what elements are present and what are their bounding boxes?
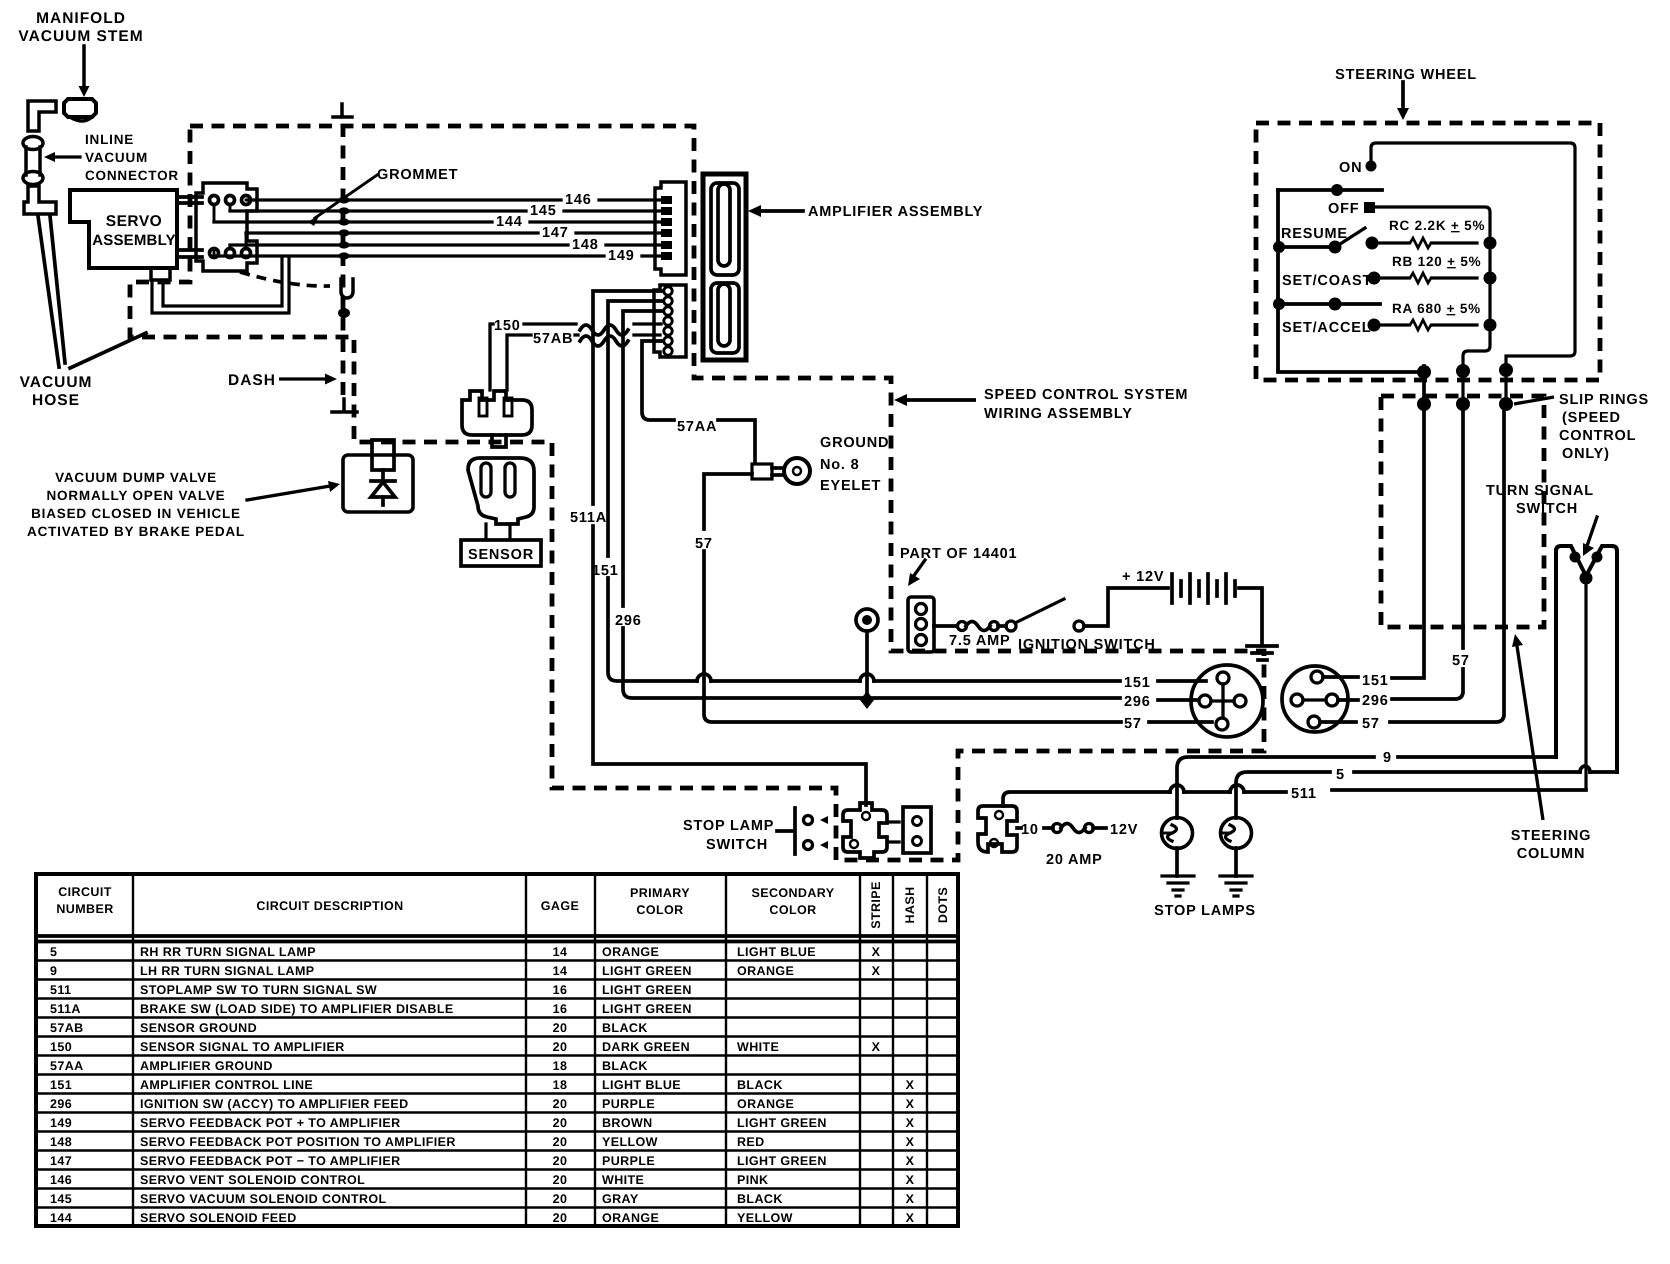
svg-text:SENSOR: SENSOR bbox=[468, 547, 534, 563]
svg-text:DOTS: DOTS bbox=[936, 887, 950, 923]
svg-text:ORANGE: ORANGE bbox=[602, 1211, 659, 1225]
svg-text:BLACK: BLACK bbox=[737, 1192, 783, 1206]
svg-text:STEERING WHEEL: STEERING WHEEL bbox=[1335, 67, 1477, 83]
svg-text:57: 57 bbox=[1124, 716, 1142, 732]
svg-text:20: 20 bbox=[553, 1097, 568, 1111]
svg-text:CONNECTOR: CONNECTOR bbox=[85, 168, 179, 183]
svg-text:LIGHT BLUE: LIGHT BLUE bbox=[602, 1078, 681, 1092]
svg-text:EYELET: EYELET bbox=[820, 478, 881, 494]
svg-text:149: 149 bbox=[50, 1116, 72, 1130]
svg-text:SET/ACCEL: SET/ACCEL bbox=[1282, 320, 1371, 336]
svg-text:RC 2.2K + 5%: RC 2.2K + 5% bbox=[1389, 218, 1485, 233]
svg-text:148: 148 bbox=[50, 1135, 72, 1149]
svg-text:144: 144 bbox=[50, 1211, 72, 1225]
svg-text:AMPLIFIER CONTROL LINE: AMPLIFIER CONTROL LINE bbox=[140, 1078, 313, 1092]
svg-text:WIRING ASSEMBLY: WIRING ASSEMBLY bbox=[984, 406, 1133, 422]
svg-text:LIGHT GREEN: LIGHT GREEN bbox=[602, 964, 692, 978]
svg-text:20: 20 bbox=[553, 1192, 568, 1206]
svg-text:PURPLE: PURPLE bbox=[602, 1154, 655, 1168]
svg-text:RED: RED bbox=[737, 1135, 765, 1149]
svg-text:18: 18 bbox=[553, 1059, 568, 1073]
svg-text:X: X bbox=[906, 1116, 915, 1130]
svg-text:SERVO VENT SOLENOID CONTROL: SERVO VENT SOLENOID CONTROL bbox=[140, 1173, 365, 1187]
svg-text:SERVO FEEDBACK POT POSITION TO: SERVO FEEDBACK POT POSITION TO AMPLIFIER bbox=[140, 1135, 456, 1149]
svg-text:GAGE: GAGE bbox=[541, 899, 579, 913]
svg-text:145: 145 bbox=[50, 1192, 72, 1206]
svg-text:RB 120 + 5%: RB 120 + 5% bbox=[1392, 254, 1481, 269]
svg-text:IGNITION SW (ACCY) TO AMPLIFIE: IGNITION SW (ACCY) TO AMPLIFIER FEED bbox=[140, 1097, 409, 1111]
svg-text:LIGHT GREEN: LIGHT GREEN bbox=[602, 1002, 692, 1016]
svg-text:SLIP RINGS: SLIP RINGS bbox=[1559, 392, 1649, 408]
svg-text:SERVO VACUUM SOLENOID CONTROL: SERVO VACUUM SOLENOID CONTROL bbox=[140, 1192, 387, 1206]
svg-text:YELLOW: YELLOW bbox=[737, 1211, 793, 1225]
svg-text:145: 145 bbox=[530, 203, 557, 219]
svg-text:X: X bbox=[872, 1040, 881, 1054]
svg-text:SERVO FEEDBACK POT + TO AMPLIF: SERVO FEEDBACK POT + TO AMPLIFIER bbox=[140, 1116, 401, 1130]
svg-text:SWITCH: SWITCH bbox=[706, 837, 768, 853]
svg-text:INLINE: INLINE bbox=[85, 132, 134, 147]
svg-text:RH RR TURN SIGNAL LAMP: RH RR TURN SIGNAL LAMP bbox=[140, 945, 316, 959]
svg-text:511A: 511A bbox=[50, 1002, 81, 1016]
svg-text:20: 20 bbox=[553, 1211, 568, 1225]
svg-text:SERVO: SERVO bbox=[106, 213, 163, 230]
svg-text:CIRCUIT: CIRCUIT bbox=[58, 885, 112, 899]
svg-text:VACUUM: VACUUM bbox=[85, 150, 148, 165]
svg-text:20: 20 bbox=[553, 1173, 568, 1187]
svg-text:OFF: OFF bbox=[1328, 201, 1359, 217]
svg-text:16: 16 bbox=[553, 1002, 568, 1016]
svg-text:BROWN: BROWN bbox=[602, 1116, 653, 1130]
svg-text:SPEED CONTROL SYSTEM: SPEED CONTROL SYSTEM bbox=[984, 387, 1188, 403]
svg-text:NUMBER: NUMBER bbox=[56, 902, 113, 916]
svg-text:STOP LAMP: STOP LAMP bbox=[683, 818, 774, 834]
svg-text:VACUUM: VACUUM bbox=[20, 374, 93, 391]
svg-text:RESUME: RESUME bbox=[1281, 226, 1348, 242]
svg-text:20 AMP: 20 AMP bbox=[1046, 852, 1103, 868]
svg-text:20: 20 bbox=[553, 1135, 568, 1149]
svg-text:146: 146 bbox=[50, 1173, 72, 1187]
svg-text:X: X bbox=[872, 964, 881, 978]
svg-text:5: 5 bbox=[50, 945, 57, 959]
svg-text:WHITE: WHITE bbox=[602, 1173, 644, 1187]
svg-text:MANIFOLD: MANIFOLD bbox=[36, 10, 126, 27]
svg-text:STOP LAMPS: STOP LAMPS bbox=[1154, 903, 1256, 919]
svg-text:AMPLIFIER ASSEMBLY: AMPLIFIER ASSEMBLY bbox=[808, 204, 983, 220]
svg-text:ORANGE: ORANGE bbox=[737, 964, 794, 978]
svg-text:ACTIVATED BY BRAKE PEDAL: ACTIVATED BY BRAKE PEDAL bbox=[27, 524, 245, 539]
svg-text:GROMMET: GROMMET bbox=[377, 167, 458, 183]
svg-text:10: 10 bbox=[1021, 822, 1039, 838]
svg-text:SERVO SOLENOID FEED: SERVO SOLENOID FEED bbox=[140, 1211, 297, 1225]
svg-text:150: 150 bbox=[50, 1040, 72, 1054]
svg-text:57: 57 bbox=[1452, 653, 1470, 669]
svg-text:151: 151 bbox=[592, 563, 619, 579]
svg-text:9: 9 bbox=[50, 964, 57, 978]
svg-text:TURN SIGNAL: TURN SIGNAL bbox=[1486, 483, 1594, 499]
svg-text:147: 147 bbox=[50, 1154, 72, 1168]
svg-text:CIRCUIT DESCRIPTION: CIRCUIT DESCRIPTION bbox=[256, 899, 403, 913]
svg-text:20: 20 bbox=[553, 1040, 568, 1054]
svg-text:151: 151 bbox=[50, 1078, 72, 1092]
svg-text:STRIPE: STRIPE bbox=[869, 881, 883, 929]
svg-text:X: X bbox=[906, 1097, 915, 1111]
svg-text:ORANGE: ORANGE bbox=[737, 1097, 794, 1111]
svg-text:57AA: 57AA bbox=[50, 1059, 84, 1073]
svg-text:IGNITION SWITCH: IGNITION SWITCH bbox=[1018, 637, 1156, 653]
svg-text:NORMALLY OPEN VALVE: NORMALLY OPEN VALVE bbox=[47, 488, 226, 503]
svg-text:ORANGE: ORANGE bbox=[602, 945, 659, 959]
svg-text:X: X bbox=[906, 1135, 915, 1149]
svg-text:COLOR: COLOR bbox=[636, 903, 683, 917]
svg-text:WHITE: WHITE bbox=[737, 1040, 779, 1054]
svg-text:No. 8: No. 8 bbox=[820, 457, 859, 473]
svg-text:LIGHT GREEN: LIGHT GREEN bbox=[737, 1116, 827, 1130]
svg-text:511: 511 bbox=[50, 983, 71, 997]
svg-text:ON: ON bbox=[1339, 160, 1362, 176]
svg-text:57: 57 bbox=[1362, 716, 1380, 732]
svg-text:STEERING: STEERING bbox=[1511, 828, 1592, 844]
svg-text:LIGHT GREEN: LIGHT GREEN bbox=[737, 1154, 827, 1168]
svg-text:VACUUM DUMP VALVE: VACUUM DUMP VALVE bbox=[55, 470, 217, 485]
svg-text:BLACK: BLACK bbox=[737, 1078, 783, 1092]
svg-text:149: 149 bbox=[608, 248, 635, 264]
svg-text:ASSEMBLY: ASSEMBLY bbox=[92, 232, 176, 249]
svg-text:SENSOR GROUND: SENSOR GROUND bbox=[140, 1021, 257, 1035]
svg-text:YELLOW: YELLOW bbox=[602, 1135, 658, 1149]
svg-text:GRAY: GRAY bbox=[602, 1192, 639, 1206]
svg-text:X: X bbox=[906, 1078, 915, 1092]
svg-text:LH RR TURN SIGNAL LAMP: LH RR TURN SIGNAL LAMP bbox=[140, 964, 315, 978]
svg-text:146: 146 bbox=[565, 192, 592, 208]
svg-text:296: 296 bbox=[615, 613, 642, 629]
svg-text:151: 151 bbox=[1362, 673, 1389, 689]
svg-text:BRAKE SW (LOAD SIDE) TO AMPLIF: BRAKE SW (LOAD SIDE) TO AMPLIFIER DISABL… bbox=[140, 1002, 454, 1016]
svg-text:147: 147 bbox=[542, 225, 569, 241]
svg-text:20: 20 bbox=[553, 1021, 568, 1035]
svg-text:14: 14 bbox=[553, 964, 568, 978]
svg-text:SECONDARY: SECONDARY bbox=[751, 886, 834, 900]
svg-text:HOSE: HOSE bbox=[32, 392, 80, 409]
svg-text:STOPLAMP SW TO TURN SIGNAL SW: STOPLAMP SW TO TURN SIGNAL SW bbox=[140, 983, 377, 997]
svg-text:SENSOR SIGNAL TO AMPLIFIER: SENSOR SIGNAL TO AMPLIFIER bbox=[140, 1040, 345, 1054]
svg-text:144: 144 bbox=[496, 214, 523, 230]
svg-text:X: X bbox=[906, 1192, 915, 1206]
svg-text:296: 296 bbox=[50, 1097, 72, 1111]
svg-text:9: 9 bbox=[1383, 750, 1392, 766]
svg-text:12V: 12V bbox=[1110, 822, 1138, 838]
svg-text:57AA: 57AA bbox=[677, 419, 717, 435]
svg-text:16: 16 bbox=[553, 983, 568, 997]
svg-text:RA 680 + 5%: RA 680 + 5% bbox=[1392, 301, 1481, 316]
svg-text:14: 14 bbox=[553, 945, 568, 959]
svg-text:PART OF 14401: PART OF 14401 bbox=[900, 546, 1017, 562]
svg-text:BLACK: BLACK bbox=[602, 1059, 648, 1073]
svg-text:X: X bbox=[906, 1173, 915, 1187]
svg-text:57AB: 57AB bbox=[50, 1021, 84, 1035]
svg-text:COLOR: COLOR bbox=[769, 903, 816, 917]
svg-text:PINK: PINK bbox=[737, 1173, 768, 1187]
svg-text:BIASED CLOSED IN VEHICLE: BIASED CLOSED IN VEHICLE bbox=[31, 506, 241, 521]
svg-text:148: 148 bbox=[572, 237, 599, 253]
svg-text:PURPLE: PURPLE bbox=[602, 1097, 655, 1111]
svg-text:VACUUM STEM: VACUUM STEM bbox=[18, 28, 143, 45]
svg-text:DARK GREEN: DARK GREEN bbox=[602, 1040, 690, 1054]
svg-text:LIGHT GREEN: LIGHT GREEN bbox=[602, 983, 692, 997]
svg-text:7.5 AMP: 7.5 AMP bbox=[949, 633, 1010, 649]
svg-text:296: 296 bbox=[1362, 693, 1389, 709]
svg-text:151: 151 bbox=[1124, 675, 1151, 691]
svg-text:511A: 511A bbox=[570, 510, 607, 526]
svg-text:SERVO FEEDBACK POT − TO AMPLIF: SERVO FEEDBACK POT − TO AMPLIFIER bbox=[140, 1154, 401, 1168]
svg-text:X: X bbox=[872, 945, 881, 959]
svg-text:BLACK: BLACK bbox=[602, 1021, 648, 1035]
svg-text:X: X bbox=[906, 1211, 915, 1225]
svg-text:150: 150 bbox=[494, 318, 521, 334]
svg-text:SET/COAST: SET/COAST bbox=[1282, 273, 1372, 289]
svg-text:57: 57 bbox=[695, 536, 713, 552]
svg-text:511: 511 bbox=[1291, 786, 1317, 802]
svg-text:CONTROL: CONTROL bbox=[1559, 428, 1636, 444]
svg-text:AMPLIFIER GROUND: AMPLIFIER GROUND bbox=[140, 1059, 273, 1073]
svg-text:X: X bbox=[906, 1154, 915, 1168]
svg-text:LIGHT BLUE: LIGHT BLUE bbox=[737, 945, 816, 959]
svg-text:57AB: 57AB bbox=[533, 331, 573, 347]
svg-text:HASH: HASH bbox=[903, 886, 917, 923]
svg-text:COLUMN: COLUMN bbox=[1517, 846, 1585, 862]
svg-text:20: 20 bbox=[553, 1154, 568, 1168]
svg-text:PRIMARY: PRIMARY bbox=[630, 886, 690, 900]
svg-text:GROUND: GROUND bbox=[820, 435, 889, 451]
svg-text:296: 296 bbox=[1124, 694, 1151, 710]
svg-text:SWITCH: SWITCH bbox=[1516, 501, 1578, 517]
svg-text:DASH: DASH bbox=[228, 372, 276, 389]
svg-text:20: 20 bbox=[553, 1116, 568, 1130]
svg-text:+ 12V: + 12V bbox=[1122, 569, 1164, 585]
svg-text:5: 5 bbox=[1336, 767, 1345, 783]
svg-text:(SPEED: (SPEED bbox=[1562, 410, 1621, 426]
svg-text:ONLY): ONLY) bbox=[1562, 446, 1610, 462]
svg-text:18: 18 bbox=[553, 1078, 568, 1092]
